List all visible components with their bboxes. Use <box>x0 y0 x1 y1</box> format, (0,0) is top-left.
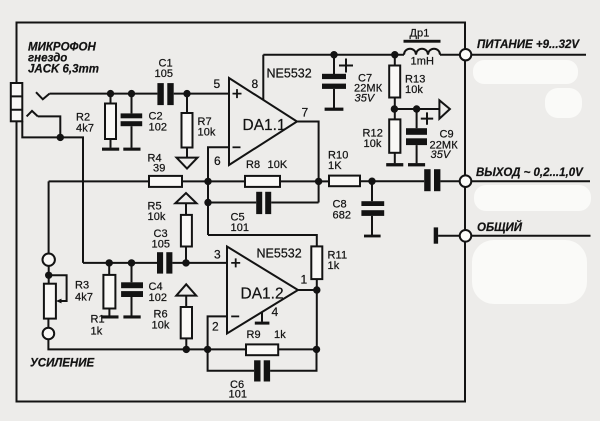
node: C2 tap <box>128 90 135 97</box>
svg-text:35V: 35V <box>431 149 452 161</box>
wire: arrow to R6 <box>185 296 187 307</box>
wire: R1 body to bottom circle <box>47 319 49 328</box>
svg-text:8: 8 <box>252 77 259 91</box>
resistor R3 <box>103 275 115 309</box>
whiteout patch far right upper <box>545 88 582 118</box>
node: C4 tap <box>128 259 135 266</box>
wire: R2 to ground <box>110 139 112 148</box>
svg-text:6: 6 <box>214 154 221 168</box>
ground bar under C2 <box>123 148 140 151</box>
wire: R5 to C3 row <box>185 247 187 263</box>
common ground bar <box>434 227 438 243</box>
svg-text:DA1.1: DA1.1 <box>243 117 286 134</box>
ground bar under C9 <box>408 163 425 166</box>
wire: choke to power terminal <box>440 54 460 56</box>
node: output at R9 row <box>313 346 320 353</box>
capacitor C3 plates <box>157 252 163 273</box>
node: wiper tie <box>45 272 52 279</box>
resistor R9 <box>246 344 278 355</box>
svg-text:1K: 1K <box>328 160 342 172</box>
wire: R13 to bias node <box>394 98 396 110</box>
capacitor C6 plates <box>254 360 260 381</box>
wire: R11 down to R9 row <box>316 279 318 349</box>
wire: R7 to bias arrow <box>186 148 188 158</box>
svg-text:4: 4 <box>272 305 279 319</box>
wire: power terminal lead <box>471 54 586 56</box>
bias arrow right-pointing triangle <box>439 100 450 118</box>
svg-text:7: 7 <box>302 106 309 120</box>
svg-text:1k: 1k <box>328 260 340 272</box>
wire: jack sleeve down and across <box>22 121 83 263</box>
wire: bias row to arrow <box>394 108 440 110</box>
svg-text:4k7: 4k7 <box>75 292 93 304</box>
wire: power rail from pin8 to choke <box>263 54 404 56</box>
wire: DA1.2 output <box>298 289 317 291</box>
potentiometer R1 top terminal circle <box>43 254 55 266</box>
node: R13 on rail <box>391 51 398 58</box>
wire: R8 to R10 <box>280 180 329 182</box>
whiteout patch below common terminal <box>472 240 587 304</box>
svg-text:R9: R9 <box>247 329 261 341</box>
svg-text:101: 101 <box>229 389 248 401</box>
capacitor C8 plates <box>361 201 384 206</box>
wire: tip contact to C1 <box>50 93 158 95</box>
node: output at mid row <box>315 178 322 185</box>
node: R3 tap <box>106 259 113 266</box>
capacitor C7 plates <box>322 74 346 79</box>
svg-text:1: 1 <box>301 273 308 287</box>
wire: bias node to R12 <box>394 109 396 119</box>
wire: C6 loop right <box>270 349 316 370</box>
wire: link row down to R11 <box>208 235 317 246</box>
resistor R12 <box>389 119 400 152</box>
resistor R13 <box>389 66 400 98</box>
wire: C9 to ground <box>416 145 418 163</box>
wire: C7 to ground <box>333 89 335 108</box>
wire: bias node to C9 <box>416 109 418 128</box>
svg-text:10k: 10k <box>405 84 423 96</box>
wire: rail to C7 top plate <box>333 55 335 74</box>
capacitor C9 plates <box>406 128 427 135</box>
wire: ground bar to common terminal <box>438 235 460 237</box>
ground bar under R12 <box>386 163 403 166</box>
wire: pin 6 left and down <box>208 147 229 235</box>
wire: C6 loop left <box>208 349 255 370</box>
jack connector body <box>11 83 22 121</box>
svg-text:10k: 10k <box>152 320 170 332</box>
svg-text:1k: 1k <box>91 326 103 338</box>
wire: to R7 <box>186 94 188 113</box>
svg-text:DA1.2: DA1.2 <box>241 286 284 303</box>
wire: R4 to R8 <box>182 180 245 182</box>
svg-text:NE5532: NE5532 <box>257 247 302 261</box>
ground bar under C4 <box>123 315 140 318</box>
wire: C3 to pin 3 <box>172 262 227 264</box>
svg-text:1mH: 1mH <box>411 56 435 68</box>
node: pin6 at mid row <box>204 178 211 185</box>
svg-text:R8: R8 <box>246 159 260 171</box>
svg-text:2: 2 <box>212 320 219 334</box>
resistor R11 <box>311 246 322 279</box>
svg-text:10K: 10K <box>268 159 288 171</box>
R1 wiper arm <box>49 275 67 301</box>
wire: circle to R1 body <box>48 266 50 284</box>
svg-text:10k: 10k <box>148 211 166 223</box>
node: bias at R13/R12 <box>391 105 398 112</box>
wire: R6 to R9 row <box>185 338 187 349</box>
capacitor C10 plates <box>424 169 430 191</box>
wire: pin 4 stub <box>261 312 263 322</box>
wire: R3 to ground <box>108 309 110 316</box>
svg-text:3: 3 <box>214 248 221 262</box>
wire: to R2 <box>110 94 112 104</box>
svg-text:682: 682 <box>333 210 352 222</box>
inductor Dr1 winding <box>404 49 440 55</box>
whiteout patch right of power terminal <box>473 60 578 84</box>
potentiometer R1 bottom terminal circle <box>43 328 55 340</box>
capacitor C5 plates <box>256 192 262 214</box>
wire: C5 to output drop <box>271 202 318 204</box>
op-amp U DA1.2 <box>227 247 298 334</box>
resistor R2 <box>105 104 116 140</box>
node: C8 at mid row <box>368 178 375 185</box>
wire: ring contact bend <box>38 116 61 137</box>
svg-text:R1: R1 <box>91 314 105 326</box>
resistor R8 <box>245 176 280 187</box>
svg-text:ОБЩИЙ: ОБЩИЙ <box>477 221 523 234</box>
terminal: power <box>460 49 471 60</box>
wire: R12 to ground <box>394 153 396 164</box>
wire: output terminal lead <box>471 180 590 182</box>
wire: R9 to output drop <box>278 348 316 350</box>
capacitor C4 plates <box>121 282 143 288</box>
svg-text:4k7: 4k7 <box>76 123 94 135</box>
ground bar under R3 <box>101 315 118 318</box>
svg-text:105: 105 <box>155 68 174 80</box>
jack divider lines <box>11 96 22 109</box>
svg-text:102: 102 <box>149 122 168 134</box>
svg-text:NE5532: NE5532 <box>267 67 312 81</box>
node: ring joins sleeve wire <box>57 134 64 141</box>
svg-text:УСИЛЕНИЕ: УСИЛЕНИЕ <box>30 358 95 370</box>
DA1.2 plus input mark <box>231 258 240 267</box>
ground bar under R2 <box>102 148 119 151</box>
node: R2 tap <box>107 90 114 97</box>
wire: arrow to R5 <box>185 203 187 215</box>
node: bias at C9 <box>413 105 420 112</box>
wire: R1 bottom to R9 row <box>48 339 246 349</box>
wire: C1 to pin 5 <box>174 93 229 95</box>
terminal: output <box>460 175 472 187</box>
DA1.1 plus input mark <box>233 89 242 98</box>
op-amp U DA1.1 <box>229 78 297 165</box>
wire: C2 to ground <box>131 126 133 148</box>
resistor R6 <box>181 307 192 338</box>
node: C5 left <box>204 199 211 206</box>
DA1.1 minus input mark <box>233 146 241 148</box>
svg-text:JACK 6,3mm: JACK 6,3mm <box>28 64 99 76</box>
C7 plus sign <box>339 59 353 73</box>
svg-text:35V: 35V <box>355 93 376 105</box>
svg-text:1k: 1k <box>274 329 286 341</box>
svg-text:10k: 10k <box>364 138 382 150</box>
resistor R5 <box>181 215 192 247</box>
ground bar under C8 <box>364 235 381 238</box>
wire: C4 to ground <box>131 297 133 316</box>
R1 wiper arrowhead <box>56 299 62 304</box>
capacitor C2 plates <box>121 113 143 118</box>
wire: C8 to ground <box>371 216 373 235</box>
wire: C3 row <box>83 262 157 264</box>
wire: pin 8 of DA1.1 up to rail <box>262 55 264 100</box>
svg-text:101: 101 <box>231 222 250 234</box>
node: R5 tap <box>182 259 189 266</box>
svg-text:105: 105 <box>152 239 171 251</box>
DA1.2 minus input mark <box>231 315 239 317</box>
resistor R7 <box>182 113 193 148</box>
wire: to R3 <box>108 263 110 275</box>
whiteout patch below output label <box>474 185 591 211</box>
wire: DA1.1 output to drop <box>297 122 319 203</box>
wire: mid row down to R1 <box>48 181 50 253</box>
wire: pin 2 left and down <box>208 316 227 349</box>
wire: common terminal lead <box>471 235 590 237</box>
bias arrow up-pointing triangle above R5 <box>175 193 196 203</box>
bias arrow up-pointing triangle above R6 <box>176 284 196 295</box>
svg-text:R3: R3 <box>75 280 89 292</box>
ground bar pin 4 <box>255 322 270 325</box>
bias arrow down-pointing triangle under R7 <box>177 158 198 169</box>
inductor Dr1 core bar <box>404 40 441 43</box>
wire: mid row left of R4 <box>49 180 149 182</box>
svg-text:ВЫХОД ~ 0,2...1,0V: ВЫХОД ~ 0,2...1,0V <box>476 167 584 179</box>
node: C7 on rail <box>330 51 337 58</box>
potentiometer R1 body <box>44 284 56 319</box>
svg-text:102: 102 <box>149 292 168 304</box>
wire: to C2 <box>131 94 133 114</box>
wire: to C4 <box>131 263 133 282</box>
svg-text:10k: 10k <box>198 127 216 139</box>
resistor R10 <box>329 176 360 187</box>
wire: mid row to C8 <box>371 181 373 201</box>
svg-text:5: 5 <box>214 77 221 91</box>
wire: R10 to C10 <box>360 180 424 182</box>
wire: rail to R13 <box>394 55 396 66</box>
schematic frame border <box>17 23 466 402</box>
ground bar under C7 <box>325 108 344 111</box>
terminal: common <box>460 230 472 242</box>
capacitor C1 plates <box>157 83 163 105</box>
jack ring contact <box>27 111 38 117</box>
node: DA1.2 output <box>313 286 320 293</box>
node: pin2 at R9 row <box>204 346 211 353</box>
node: R7 tap <box>183 90 190 97</box>
jack tip contact <box>36 92 50 99</box>
wire: C10 to output terminal <box>440 180 460 182</box>
C9 plus sign <box>421 112 433 124</box>
svg-text:39: 39 <box>153 163 165 175</box>
node: R6 at R9 row <box>183 346 190 353</box>
wire: C5 row <box>208 202 256 204</box>
resistor R4 <box>149 176 182 187</box>
svg-text:Др1: Др1 <box>410 28 430 40</box>
svg-text:ПИТАНИЕ +9...32V: ПИТАНИЕ +9...32V <box>477 39 580 51</box>
